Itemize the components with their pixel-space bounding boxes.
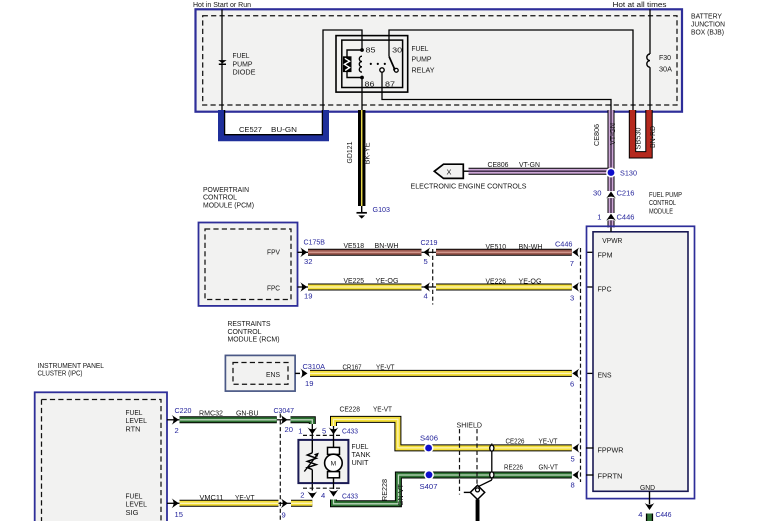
C219 arrow top (423, 247, 430, 257)
svg-text:C433: C433 (342, 427, 358, 436)
C446 arrow FPM (572, 247, 579, 257)
svg-text:X: X (447, 167, 452, 176)
svg-text:CE806: CE806 (592, 124, 601, 146)
svg-text:C3047: C3047 (274, 406, 295, 415)
relay contact 30 terminal (394, 68, 398, 72)
svg-text:FPRTN: FPRTN (598, 472, 623, 481)
svg-text:SB530: SB530 (633, 128, 642, 150)
svg-text:YE-VT: YE-VT (235, 493, 255, 502)
wire relay pin 87 output to VT-GN (382, 72, 611, 112)
svg-text:VMC11: VMC11 (200, 493, 224, 502)
svg-text:20: 20 (285, 425, 293, 434)
svg-text:C310A: C310A (303, 362, 326, 371)
connector C219 inline (432, 249, 434, 305)
svg-text:RELAY: RELAY (412, 66, 435, 75)
wire GD121 BK-YE relay ground (358, 110, 365, 206)
wire CE527 BU-GN blue loop (222, 110, 326, 138)
relay coil element (343, 56, 352, 72)
svg-text:SIG: SIG (126, 508, 139, 517)
fuel tank unit box (298, 440, 348, 483)
svg-text:MODULE (RCM): MODULE (RCM) (228, 335, 280, 344)
svg-text:30A: 30A (659, 64, 673, 73)
wire ground stub below C446 (646, 514, 653, 521)
svg-text:C446: C446 (617, 213, 635, 222)
svg-text:RMC32: RMC32 (199, 409, 223, 418)
dashed inner border of IPC (42, 400, 162, 521)
svg-text:CE527: CE527 (239, 125, 262, 134)
fuel tank unit pin 4 arrow (329, 489, 339, 496)
svg-text:VE510: VE510 (486, 242, 507, 251)
battery junction box / run-start box outline (196, 9, 683, 111)
svg-text:FPV: FPV (267, 248, 281, 257)
svg-text:ENS: ENS (598, 370, 612, 379)
electronic engine controls connector (434, 164, 463, 178)
svg-text:Hot at all times: Hot at all times (613, 0, 667, 9)
shield drain wire with loops (491, 444, 493, 481)
fuel pump motor (333, 440, 335, 447)
svg-text:S406: S406 (420, 434, 438, 443)
svg-text:3: 3 (570, 293, 574, 302)
svg-text:6: 6 (570, 379, 574, 388)
svg-text:DIODE: DIODE (233, 68, 256, 77)
svg-text:C433: C433 (342, 492, 358, 501)
fuse F30 element (647, 54, 650, 67)
svg-text:C219: C219 (421, 238, 438, 247)
wire fuse F30 to box edge (649, 67, 651, 112)
wire RMC32 GN-BU (180, 416, 277, 423)
C3047 arrow top (280, 415, 287, 425)
svg-text:UNIT: UNIT (352, 458, 369, 467)
svg-text:MODULE (PCM): MODULE (PCM) (203, 200, 254, 209)
svg-text:PUMP: PUMP (412, 55, 432, 64)
fuel level sender resistor (311, 440, 313, 453)
svg-text:CE228: CE228 (340, 404, 361, 413)
wire relay switch feed pin 30 to fuse (389, 30, 633, 112)
svg-text:CLUSTER (IPC): CLUSTER (IPC) (38, 369, 83, 378)
svg-text:CE806: CE806 (488, 160, 509, 169)
C219 arrow bottom (423, 282, 430, 292)
svg-text:MODULE: MODULE (649, 207, 673, 216)
svg-text:VE518: VE518 (344, 241, 365, 250)
svg-text:FPC: FPC (598, 284, 612, 293)
svg-text:BN-WH: BN-WH (375, 241, 399, 250)
wire VPWR entry (610, 228, 612, 232)
relay switch arm (389, 56, 394, 68)
connector C3047 inline (279, 414, 281, 521)
svg-text:Hot in Start or Run: Hot in Start or Run (193, 0, 251, 9)
connector C433 dashed top (303, 434, 341, 436)
relay coil branch (347, 50, 362, 78)
relay coil junction dots (360, 48, 364, 52)
splice S407 (424, 470, 434, 480)
splice S130 (606, 168, 616, 178)
fuel tank unit pin 1 arrow (307, 427, 317, 434)
svg-text:9: 9 (282, 510, 286, 519)
svg-text:85: 85 (366, 45, 376, 54)
dashed inner border of top box (203, 16, 677, 105)
svg-text:GN-BU: GN-BU (236, 409, 259, 418)
relay contact 87 terminal (380, 68, 384, 72)
relay spare terminal dots (370, 63, 372, 65)
svg-text:C175B: C175B (304, 237, 326, 246)
ground G103 (361, 206, 363, 213)
svg-text:15: 15 (175, 510, 183, 519)
svg-text:RTN: RTN (126, 424, 141, 433)
shield ground wire stub (476, 500, 480, 521)
svg-text:7: 7 (570, 259, 574, 268)
wire VE518 BN-WH (308, 249, 422, 256)
svg-text:VPWR: VPWR (602, 236, 622, 245)
svg-text:BN-WH: BN-WH (519, 242, 543, 251)
wire battery feed to fuse F30 (649, 9, 651, 54)
svg-text:BU-GN: BU-GN (271, 125, 297, 134)
wire RMC32 to fuel tank unit pin 1 (291, 420, 313, 424)
wire VE226 YE-OG (436, 284, 572, 291)
svg-text:VT-GN: VT-GN (519, 160, 540, 169)
dashed inner border of RCM (233, 363, 288, 385)
wire VMC11 YE-VT (180, 500, 279, 507)
svg-text:YE-OG: YE-OG (376, 276, 399, 285)
fuel pump relay outer box (336, 36, 408, 93)
svg-text:GD121: GD121 (345, 142, 354, 164)
connector C446 dashed line (580, 248, 582, 482)
svg-text:CE226: CE226 (506, 437, 525, 446)
svg-text:ELECTRONIC ENGINE CONTROLS: ELECTRONIC ENGINE CONTROLS (411, 182, 527, 191)
svg-text:4: 4 (424, 291, 428, 300)
svg-text:86: 86 (365, 79, 375, 88)
svg-text:GND: GND (640, 483, 655, 492)
connector C433 dashed bottom (303, 487, 341, 489)
wire VE225 YE-OG (308, 284, 422, 291)
shield ground symbol (470, 485, 484, 499)
C446 arrow FPC (572, 282, 579, 292)
wire diode to relay coil feed (323, 30, 362, 112)
C446 arrow FPPWR (573, 443, 580, 453)
svg-text:C220: C220 (175, 406, 192, 415)
svg-text:5: 5 (571, 455, 575, 464)
fuel pump diode (218, 60, 226, 63)
svg-text:1: 1 (298, 427, 302, 436)
svg-text:19: 19 (305, 379, 313, 388)
relay coil humps (359, 56, 362, 72)
svg-text:YE-VT: YE-VT (539, 437, 558, 446)
fuel pump control module outer box (587, 226, 695, 498)
powertrain control module box (199, 223, 298, 306)
svg-text:87: 87 (385, 79, 395, 88)
wire CE806 VT-GN horizontal to EEC (469, 168, 612, 175)
svg-text:G103: G103 (373, 205, 391, 214)
svg-text:SHIELD: SHIELD (457, 421, 483, 430)
svg-text:ENS: ENS (266, 370, 280, 379)
svg-text:S130: S130 (620, 169, 637, 178)
svg-text:C446: C446 (656, 510, 672, 519)
svg-text:M: M (331, 461, 337, 468)
svg-text:30: 30 (392, 45, 402, 54)
C3047 arrow bottom (281, 498, 288, 508)
connector C446 arrow on VPWR (606, 214, 616, 221)
wire run-start feed to fuel pump diode (221, 9, 223, 111)
svg-text:BN-RD: BN-RD (648, 126, 657, 148)
fuel pump relay inner box (342, 40, 403, 87)
svg-text:4: 4 (321, 491, 325, 500)
fuel tank unit pin 2 arrow (307, 491, 317, 498)
svg-text:F30: F30 (659, 53, 671, 62)
connector C216 arrow (606, 191, 616, 198)
svg-text:RE228: RE228 (380, 479, 389, 501)
fuel pump control module inner box (593, 232, 688, 492)
C446 arrow FPRTN (573, 470, 580, 480)
svg-text:5: 5 (322, 427, 326, 436)
svg-text:VT-GN: VT-GN (608, 123, 617, 145)
svg-text:RE226: RE226 (504, 463, 523, 472)
instrument panel cluster box (35, 392, 167, 521)
svg-text:YE-VT: YE-VT (376, 362, 395, 371)
svg-text:30: 30 (593, 189, 601, 198)
shield dashed line left (459, 429, 461, 495)
wire VE510 BN-WH (436, 249, 572, 256)
shield dashed line right (476, 429, 478, 485)
svg-text:32: 32 (304, 257, 312, 266)
svg-text:GN-VT: GN-VT (539, 463, 559, 472)
svg-text:2: 2 (300, 490, 304, 499)
svg-text:2: 2 (175, 426, 179, 435)
wire relay coil ground pin 86 (361, 78, 363, 112)
svg-text:YE-OG: YE-OG (519, 276, 542, 285)
dashed inner border of PCM (205, 229, 291, 300)
svg-text:CR167: CR167 (343, 362, 362, 371)
svg-text:S407: S407 (420, 482, 438, 491)
svg-text:BK-YE: BK-YE (363, 143, 372, 165)
svg-text:YE-VT: YE-VT (373, 404, 392, 413)
wire CR167 YE-VT (310, 370, 572, 377)
svg-text:GN-VT: GN-VT (396, 483, 405, 506)
svg-text:8: 8 (571, 481, 575, 490)
svg-text:FPM: FPM (598, 251, 613, 260)
svg-text:C446: C446 (555, 239, 573, 248)
svg-text:4: 4 (638, 510, 642, 519)
svg-text:C216: C216 (617, 189, 635, 198)
svg-text:19: 19 (304, 291, 312, 300)
wire CE806 VT-GN vertical (608, 110, 615, 191)
fuel tank unit pin 5 arrow (329, 427, 339, 434)
wire SB530 BN-RD red loop (633, 110, 650, 155)
svg-text:5: 5 (424, 257, 428, 266)
svg-text:FUEL: FUEL (412, 44, 429, 53)
wire CE228 YE-VT (334, 419, 572, 448)
svg-text:VE225: VE225 (344, 276, 365, 285)
svg-text:VE226: VE226 (486, 276, 507, 285)
svg-text:FPPWR: FPPWR (598, 445, 624, 454)
wire VMC11 to fuel tank unit pin 2 (291, 500, 312, 507)
wire RE228 GN-VT (334, 475, 572, 504)
svg-text:FPC: FPC (267, 283, 280, 292)
svg-text:1: 1 (597, 213, 601, 222)
restraints control module box (225, 355, 295, 391)
splice S406 (424, 443, 434, 453)
svg-text:BOX (BJB): BOX (BJB) (691, 28, 724, 37)
C446 arrow ENS (572, 369, 579, 379)
